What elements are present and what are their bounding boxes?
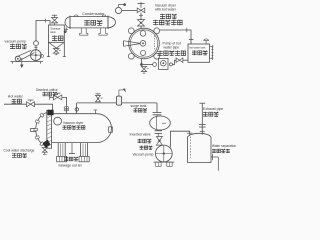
svg-text:with hot water: with hot water — [155, 8, 177, 12]
relief valve on vapour line — [96, 95, 101, 101]
vent gauge line and dot — [119, 5, 125, 8]
storage tank legs — [48, 42, 50, 56]
wire: to hot water pump — [143, 64, 153, 66]
vacuum pump body (lower) — [155, 145, 172, 162]
wire: hot water line — [4, 104, 53, 110]
valve V2 above dryer — [138, 20, 145, 26]
hot water valve — [27, 102, 35, 107]
vent T-cap at top — [140, 3, 142, 7]
surge tank flange top — [153, 111, 162, 113]
flange tick — [186, 28, 188, 33]
tank vent mushroom — [204, 39, 209, 41]
svg-text:water pipe: water pipe — [164, 46, 180, 50]
label: sewage outlet — [64, 157, 68, 161]
dryer feed cone — [123, 41, 125, 47]
exhaust flange pair — [199, 123, 206, 125]
label: vacuum pump (lower) — [140, 146, 144, 150]
lower dryer flange band — [47, 110, 52, 148]
level gauge — [210, 46, 213, 48]
wire: disinfect orifice line — [50, 96, 54, 98]
wire: dryer to hot water tank top — [160, 30, 191, 44]
vacuum dryer inner shell — [130, 30, 157, 57]
dryer lug NE — [154, 28, 160, 34]
belt drive — [16, 50, 32, 57]
door handle — [31, 128, 36, 131]
label: condenser CJK — [84, 20, 90, 26]
storage tank funnel bottom — [49, 43, 57, 49]
storage tank drain valve — [53, 49, 59, 54]
wire: down to dryer — [140, 13, 142, 20]
sewage outlet stub — [71, 143, 73, 154]
wire: vapour line — [77, 102, 157, 104]
condenser vent valve circle — [115, 7, 121, 13]
lower dryer end cap — [97, 114, 112, 143]
separator dip tube dashed — [190, 137, 192, 158]
separator drain — [211, 156, 218, 158]
top stub with cap — [94, 110, 96, 113]
svg-text:Vacuum pump: Vacuum pump — [133, 153, 154, 157]
fitting circle — [153, 63, 157, 67]
svg-text:Sewage out let: Sewage out let — [58, 164, 81, 168]
svg-text:Condensator: Condensator — [82, 11, 105, 16]
wire: vapour stub from dryer — [76, 103, 78, 114]
vacuum pump P1 motor pulley — [15, 56, 20, 61]
dryer port bottom — [140, 50, 145, 55]
T fitting at tank top — [189, 38, 194, 40]
vacuum dryer end-view outer shell — [129, 28, 160, 59]
wire: suction pipe pump->storage tank — [36, 21, 50, 42]
svg-text:Hot water: Hot water — [8, 94, 24, 98]
cool water discharge valve — [42, 148, 47, 153]
sight glass circle — [54, 117, 62, 125]
svg-text:tank: tank — [50, 30, 56, 34]
svg-text:Exhaust pipe: Exhaust pipe — [203, 107, 223, 111]
svg-text:Water separation: Water separation — [212, 144, 236, 148]
end port — [109, 127, 113, 132]
dryer internal dashed line — [153, 36, 155, 51]
dryer lug SE — [154, 53, 160, 59]
dryer lug SW — [128, 53, 134, 59]
svg-text:Cool water discharge: Cool water discharge — [4, 149, 35, 153]
valve before tank — [176, 58, 183, 62]
surge tank flange bottom — [156, 129, 158, 132]
condenser body — [70, 16, 108, 18]
drain valve below dryer — [141, 66, 146, 71]
pump outlet bump — [40, 54, 43, 57]
water separator body — [188, 133, 212, 162]
cool water discharge elbow (black) — [43, 140, 50, 148]
wire: dryer bottom drain — [141, 59, 143, 64]
exhaust pipe — [201, 104, 203, 135]
dryer port centre — [140, 41, 146, 47]
hot water tank body — [188, 44, 210, 62]
wire: condensate downpipe to storage tank — [64, 28, 66, 32]
door clamps — [40, 113, 44, 117]
dryer port top — [140, 31, 146, 37]
dryer lug NW — [128, 28, 134, 34]
hot water inlet elbow (black) — [48, 110, 54, 115]
flange tick on suction — [34, 46, 37, 48]
pump drain arrow — [21, 58, 23, 65]
valve V1 on condenser line — [137, 8, 145, 13]
exhaust stub tee — [200, 130, 205, 132]
svg-text:vacuum pump: vacuum pump — [5, 39, 26, 43]
fitting circle after pump — [170, 63, 173, 66]
hot water pipe pump box — [159, 58, 168, 69]
svg-text:Vacuum dryer: Vacuum dryer — [63, 121, 84, 125]
lower dryer legs — [57, 143, 59, 157]
wire: condenser to dryer vertical main — [122, 9, 138, 11]
flange at separator inlet — [187, 132, 193, 134]
vacuum pump P1 body — [30, 50, 41, 61]
lower dryer door arc — [36, 113, 47, 147]
svg-text:hot water tank: hot water tank — [189, 45, 206, 49]
svg-text:surge tank: surge tank — [131, 104, 147, 108]
wire: step up to tank — [173, 60, 177, 64]
canister bleed arrow — [119, 90, 124, 96]
vacuum pump P1 inlet port — [34, 41, 39, 46]
svg-text:Disinfect orifice: Disinfect orifice — [36, 88, 58, 92]
wire: down into dryer — [62, 97, 67, 113]
condenser top lugs — [74, 15, 78, 17]
lower dryer shell — [52, 113, 97, 115]
flange tick on suction pipe — [44, 19, 46, 23]
check valve (inverted valve) — [157, 133, 159, 136]
disinfect valve — [53, 95, 61, 100]
wire: pump discharge — [170, 131, 189, 147]
wire: down into surge tank — [156, 103, 158, 112]
condenser right cap — [108, 17, 115, 28]
pump base (lower) — [154, 161, 175, 163]
pump base — [11, 61, 44, 63]
surge tank body — [150, 116, 171, 130]
canister fitting — [116, 96, 121, 105]
storage tank T1 body — [49, 25, 65, 42]
flange disc on drop — [64, 107, 69, 109]
svg-text:Inverted valve: Inverted valve — [130, 132, 151, 136]
storage tank vent valve on top — [54, 15, 56, 17]
flange tick — [139, 15, 143, 17]
condenser left cap — [65, 17, 70, 28]
condenser support brackets — [80, 28, 88, 35]
